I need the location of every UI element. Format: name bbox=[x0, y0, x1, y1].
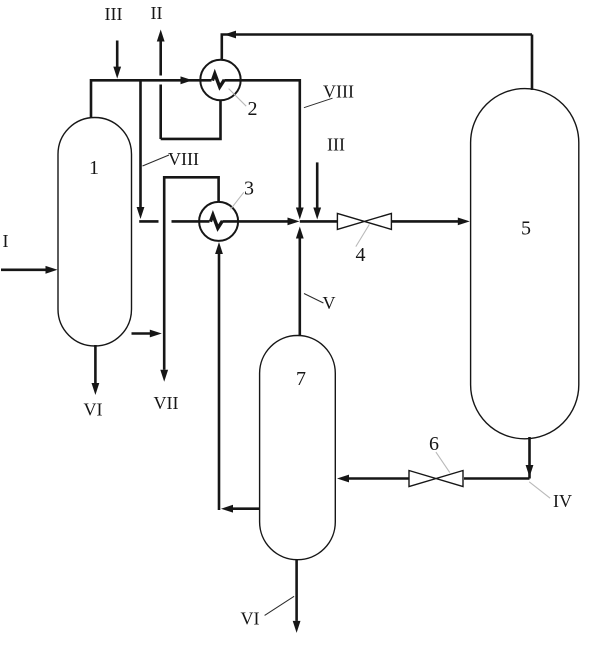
wire: HX3 inlet horizontal with crossover gap bbox=[139, 220, 209, 223]
svg-text:VII: VII bbox=[154, 393, 179, 413]
wire: vessel 7 bottoms outlet VI bbox=[295, 559, 298, 621]
svg-text:1: 1 bbox=[89, 157, 99, 179]
wire: stream V from vessel 7 top up to junction bbox=[298, 239, 301, 337]
heat exchanger 3 bbox=[199, 202, 238, 241]
vessel 5 bbox=[471, 89, 579, 439]
wire: HX2 outlet down to mixing junction bbox=[224, 79, 299, 208]
vessel 1 bbox=[58, 118, 132, 347]
svg-text:VI: VI bbox=[84, 400, 103, 420]
heat exchanger 2 zigzag bbox=[212, 74, 224, 87]
svg-text:4: 4 bbox=[356, 244, 366, 266]
valve 6 bbox=[409, 471, 463, 487]
svg-text:II: II bbox=[151, 3, 163, 23]
wire: stream II outlet from HX2 shell loop bbox=[159, 41, 162, 139]
wire: recycle from vessel 5 top to HX2 bbox=[222, 33, 532, 90]
svg-text:VIII: VIII bbox=[323, 82, 354, 102]
svg-text:III: III bbox=[327, 135, 345, 155]
wire: HX2 shell U-loop to II bbox=[161, 100, 222, 139]
heat exchanger 3 zigzag bbox=[210, 215, 222, 228]
svg-text:IV: IV bbox=[553, 491, 572, 511]
wire: vessel 1 bottoms outlet VI bbox=[94, 345, 97, 383]
svg-text:I: I bbox=[3, 231, 9, 251]
svg-text:VIII: VIII bbox=[168, 149, 199, 169]
svg-text:6: 6 bbox=[429, 433, 439, 455]
wire: vessel 5 bottoms to valve 6 to vessel 7 bbox=[349, 437, 530, 479]
svg-text:3: 3 bbox=[244, 178, 254, 200]
svg-text:V: V bbox=[323, 293, 336, 313]
wire: HX3 outlet to junction bbox=[222, 220, 287, 223]
wire: vessel 1 overhead to HX2 bbox=[90, 80, 212, 118]
vessel 7 bbox=[260, 336, 336, 560]
valve 4 bbox=[337, 213, 391, 229]
svg-text:5: 5 bbox=[521, 218, 531, 240]
wire: junction to valve 4 to vessel 5 bbox=[300, 220, 458, 223]
heat exchanger 2 bbox=[200, 60, 240, 100]
wire: stream III arrow into overhead line bbox=[116, 41, 119, 68]
svg-text:2: 2 bbox=[248, 98, 258, 120]
wire: VIII branch down to HX3 inlet bbox=[139, 80, 142, 207]
wire: vessel 1 side outlet to VII line bbox=[132, 332, 151, 335]
svg-text:VI: VI bbox=[241, 609, 260, 629]
wire: stream III arrow into junction line bbox=[316, 162, 319, 207]
wire: feed I into vessel 1 bbox=[1, 268, 47, 271]
wire: HX3 top U-loop to VII outlet bbox=[164, 176, 220, 370]
svg-text:III: III bbox=[105, 4, 123, 24]
wire: vessel 7 side outlet to HX3 bottom bbox=[219, 254, 260, 510]
svg-text:7: 7 bbox=[296, 368, 306, 390]
